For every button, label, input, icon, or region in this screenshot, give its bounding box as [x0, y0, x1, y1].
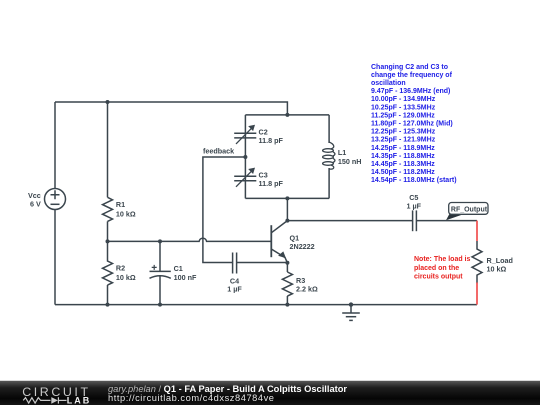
svg-text:1 µF: 1 µF [227, 284, 242, 293]
svg-text:LAB: LAB [67, 395, 92, 405]
voltage source V1 Vcc 6V [45, 189, 66, 210]
wire tank top edge [245, 114, 329, 116]
svg-text:change the frequency of: change the frequency of [371, 72, 453, 79]
resistor R3 2.2 kOhm [282, 272, 292, 296]
svg-text:11.8 pF: 11.8 pF [259, 179, 284, 188]
capacitor C5 1 uF [413, 210, 417, 231]
wire Vcc top lead [54, 102, 56, 189]
svg-text:10.00pF - 134.9MHz: 10.00pF - 134.9MHz [371, 96, 436, 103]
svg-text:100 nF: 100 nF [174, 273, 197, 282]
svg-text:1 µF: 1 µF [407, 201, 422, 210]
svg-text:L1: L1 [338, 148, 346, 157]
note blue annotation about C2 C3 frequencies [371, 64, 457, 184]
svg-text:150 nH: 150 nH [338, 157, 362, 166]
wire tank right edge upper lead to L1 [328, 115, 330, 143]
flag RF_Output [446, 203, 488, 221]
svg-text:2.2 kΩ: 2.2 kΩ [296, 285, 318, 294]
wire tank right edge lower lead from L1 [328, 168, 330, 198]
svg-text:Note: The load is: Note: The load is [414, 256, 471, 263]
wire red output net upper segment [476, 221, 478, 241]
wire R2 bottom lead [107, 285, 109, 305]
junction node dots [106, 100, 354, 307]
wire R1 bottom lead [107, 221, 109, 241]
wire R1 top lead [107, 102, 109, 197]
svg-text:12.25pF - 125.3MHz: 12.25pF - 125.3MHz [371, 129, 436, 136]
svg-text:feedback: feedback [203, 147, 234, 156]
transistor Q1 2N2222 NPN [271, 221, 287, 263]
svg-text:RF_Output: RF_Output [451, 206, 488, 213]
note red annotation about load [414, 256, 471, 281]
capacitor C3 variable 11.8 pF [234, 171, 256, 187]
svg-text:http://circuitlab.com/c4dxsz84: http://circuitlab.com/c4dxsz84784ve [108, 393, 275, 403]
logo resistor and diode glyph [23, 397, 66, 403]
resistor R2 [103, 241, 113, 285]
svg-text:6 V: 6 V [30, 200, 41, 209]
svg-text:13.25pF - 121.9MHz: 13.25pF - 121.9MHz [371, 137, 436, 144]
footer bar [0, 379, 540, 382]
capacitor C4 1 uF [233, 253, 237, 274]
svg-text:C1: C1 [174, 264, 183, 273]
capacitor C1 polarized 100 nF [150, 265, 171, 278]
svg-text:10.25pF - 133.5MHz: 10.25pF - 133.5MHz [371, 104, 436, 111]
wire R3 top lead [286, 263, 288, 272]
wire tank left edge through C2 C3 [244, 115, 246, 198]
wire feedback net from tank tap to C4 [203, 157, 246, 263]
svg-text:2N2222: 2N2222 [290, 242, 315, 251]
wire C5 to output corner [416, 220, 477, 222]
wire collector node to C5 [287, 220, 412, 222]
wire mid rail with hop over feedback wire [108, 238, 272, 241]
svg-text:circuits output: circuits output [414, 274, 463, 281]
wire R3 bottom lead [286, 296, 288, 305]
svg-text:11.8 pF: 11.8 pF [259, 136, 284, 145]
svg-text:10 kΩ: 10 kΩ [116, 273, 136, 282]
svg-text:14.45pF - 118.3MHz: 14.45pF - 118.3MHz [371, 161, 435, 168]
ground symbol [342, 305, 360, 321]
svg-text:14.35pF - 118.8MHz: 14.35pF - 118.8MHz [371, 153, 435, 160]
svg-text:11.25pF - 129.0MHz: 11.25pF - 129.0MHz [371, 112, 435, 119]
resistor R1 [103, 197, 113, 221]
capacitor C2 variable 11.8 pF [234, 128, 256, 144]
svg-text:10 kΩ: 10 kΩ [116, 209, 136, 218]
svg-text:9.47pF - 136.9MHz (end): 9.47pF - 136.9MHz (end) [371, 88, 450, 95]
svg-text:11.80pF - 127.0Mhz (Mid): 11.80pF - 127.0Mhz (Mid) [371, 121, 453, 128]
resistor R_Load 10 kOhm [472, 241, 482, 284]
svg-text:14.50pF - 118.2MHz: 14.50pF - 118.2MHz [371, 169, 435, 176]
svg-text:14.54pF - 118.0MHz (start): 14.54pF - 118.0MHz (start) [371, 177, 457, 184]
wire C4 to emitter [237, 262, 288, 264]
svg-text:R2: R2 [116, 264, 125, 273]
svg-text:14.25pF - 118.9MHz: 14.25pF - 118.9MHz [371, 145, 435, 152]
wire Vcc bottom lead [54, 210, 56, 305]
svg-text:oscillation: oscillation [371, 80, 406, 87]
wire red output net lower segment [476, 283, 478, 305]
svg-text:10 kΩ: 10 kΩ [487, 264, 507, 273]
svg-text:placed on the: placed on the [414, 265, 459, 272]
wire C1 bottom lead [159, 277, 161, 305]
inductor L1 150 nH [323, 142, 335, 169]
wire top rail from Vcc to tank feed [55, 102, 287, 115]
wire tank bottom edge [245, 197, 329, 199]
wire C1 top lead [159, 241, 161, 271]
wire tank bottom to collector node [286, 198, 288, 220]
svg-text:Changing C2 and C3 to: Changing C2 and C3 to [371, 64, 448, 71]
wire bottom ground rail [55, 304, 477, 306]
svg-text:R1: R1 [116, 200, 125, 209]
